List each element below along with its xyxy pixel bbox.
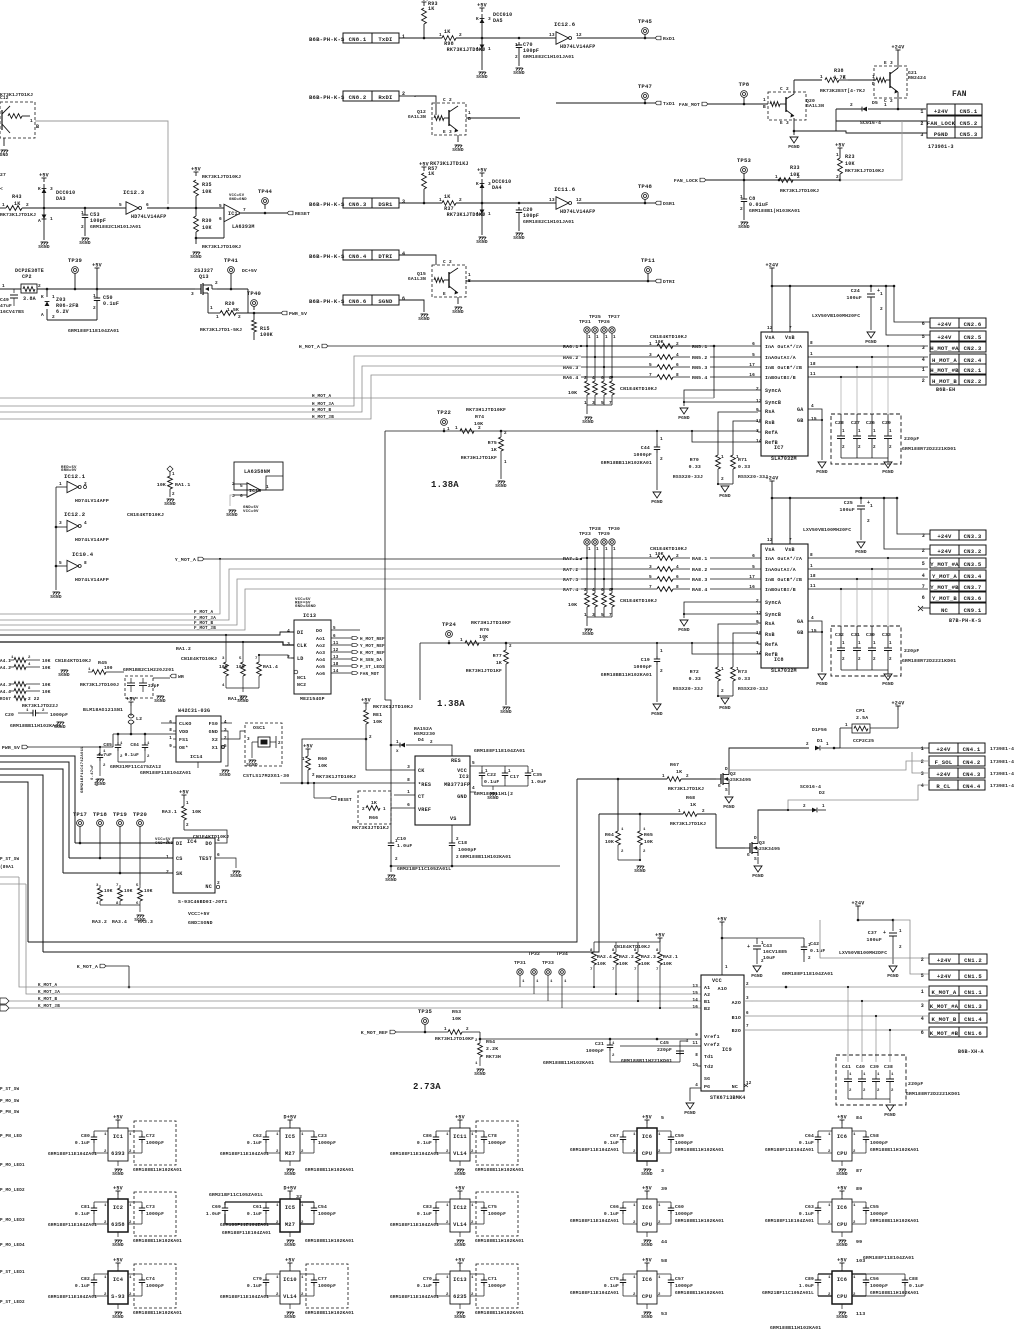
svg-text:D1: D1 — [817, 738, 823, 744]
ground SGND at C20 — [57, 721, 64, 723]
resistor R72 0.33 — [716, 667, 721, 681]
svg-text:1: 1 — [471, 1204, 474, 1208]
svg-text:6: 6 — [676, 574, 679, 580]
wire K_MOT_A — [19, 877, 701, 987]
ground SGND under R75 — [498, 480, 505, 482]
svg-text:C23: C23 — [318, 1133, 327, 1139]
wires IC9 outputs to CN1 — [744, 986, 929, 988]
svg-text:2: 2 — [877, 1089, 880, 1093]
svg-text:DSR1: DSR1 — [378, 201, 393, 208]
svg-text:Ao6: Ao6 — [316, 671, 325, 677]
ground SGND IC5 row1 — [289, 1161, 291, 1166]
test point TP17 — [77, 820, 84, 827]
svg-text:1: 1 — [301, 1276, 304, 1280]
svg-text:100: 100 — [104, 665, 113, 671]
svg-text:2 22: 2 22 — [28, 696, 40, 702]
svg-text:2: 2 — [459, 197, 462, 203]
resistor RA3.3 10K vertical — [138, 888, 143, 901]
svg-text:1: 1 — [266, 484, 269, 490]
svg-text:1: 1 — [588, 547, 591, 552]
wire CLKO out — [161, 722, 176, 724]
svg-text:GRM21BF11C105ZA01L: GRM21BF11C105ZA01L — [397, 866, 451, 872]
svg-text:4: 4 — [811, 615, 814, 621]
net DSR1 out — [645, 202, 655, 204]
svg-text:GA1L3N: GA1L3N — [408, 276, 426, 282]
svg-text:RK73K1JTD1KJ: RK73K1JTD1KJ — [670, 821, 706, 827]
svg-text:1000pF: 1000pF — [870, 1211, 888, 1217]
svg-text:C37: C37 — [868, 930, 877, 936]
svg-text:2: 2 — [276, 1221, 279, 1225]
svg-text:LA6393M: LA6393M — [232, 224, 255, 230]
svg-text:1: 1 — [596, 335, 599, 340]
svg-text:4: 4 — [676, 352, 679, 358]
capacitor C8 0.01uF — [743, 180, 745, 196]
svg-text:1: 1 — [660, 436, 663, 442]
svg-text:1: 1 — [383, 807, 386, 812]
ground SGND under IC14 — [197, 762, 199, 768]
connector CN1.2 — [929, 954, 987, 964]
svg-text:2: 2 — [104, 1293, 107, 1297]
svg-text:+24V: +24V — [937, 973, 952, 980]
svg-text:TP17: TP17 — [73, 811, 87, 818]
wire to CN5.1 — [898, 108, 926, 110]
svg-text:FS1: FS1 — [179, 737, 188, 743]
svg-text:RA6.1: RA6.1 — [563, 344, 578, 350]
svg-text:SGND: SGND — [164, 501, 176, 507]
svg-text:R77: R77 — [493, 653, 502, 659]
svg-text:C17: C17 — [510, 774, 519, 780]
svg-text:P_ST_SW: P_ST_SW — [0, 1087, 20, 1092]
svg-text:GRM188F11E104ZA01: GRM188F11E104ZA01 — [390, 1151, 439, 1157]
svg-text:10K: 10K — [644, 839, 653, 845]
svg-text:0.33: 0.33 — [689, 464, 701, 470]
svg-text:2: 2 — [658, 1293, 661, 1297]
wire F_SOL — [729, 761, 929, 770]
svg-text:0.1uF: 0.1uF — [484, 779, 499, 785]
svg-text:10uF: 10uF — [763, 955, 775, 961]
wire to TP40 — [236, 312, 254, 314]
svg-text:2: 2 — [276, 1293, 279, 1297]
net PWR_5V out — [281, 311, 287, 315]
svg-text:IC13: IC13 — [303, 613, 316, 619]
svg-text:C: C — [443, 259, 446, 265]
svg-text:E: E — [884, 60, 887, 66]
svg-text:SGND: SGND — [582, 419, 594, 425]
svg-text:TP33: TP33 — [542, 960, 554, 966]
svg-text:1: 1 — [633, 1276, 636, 1280]
svg-text:11: 11 — [692, 1041, 698, 1046]
svg-text:RK73K1JTD1KJ: RK73K1JTD1KJ — [447, 212, 486, 218]
svg-text:3: 3 — [96, 884, 99, 888]
svg-text:RA8.2: RA8.2 — [692, 567, 707, 573]
svg-text:GRM188B11H221KD01: GRM188B11H221KD01 — [621, 1058, 672, 1064]
net H_MOT_REF stub — [331, 637, 352, 639]
svg-text:K: K — [41, 294, 44, 300]
svg-text:RefA: RefA — [765, 642, 779, 648]
svg-text:2: 2 — [449, 259, 452, 265]
resistor R15 100K — [253, 313, 255, 320]
svg-text:3: 3 — [222, 657, 225, 661]
svg-text:CCP2C25: CCP2C25 — [853, 738, 874, 744]
capacitor C75 0.1uF — [622, 1274, 624, 1277]
resistor RA2.2 10K — [615, 942, 617, 952]
svg-text:PGND: PGND — [751, 973, 763, 979]
svg-text:4: 4 — [922, 573, 925, 579]
svg-text:10K: 10K — [236, 664, 245, 670]
svg-text:RK73K1JTD10KJ: RK73K1JTD10KJ — [202, 174, 241, 180]
svg-text:3: 3 — [921, 771, 924, 777]
ground SGND under inverters — [53, 591, 60, 593]
svg-text:1: 1 — [439, 197, 442, 203]
capacitor group C28-C29 dashed — [831, 414, 901, 464]
test point TP40 — [251, 300, 258, 307]
svg-text:SGND: SGND — [474, 1071, 486, 1077]
wire GA GB to PGND — [808, 409, 822, 460]
wire unit rail IC6 row1 — [623, 1130, 637, 1132]
svg-text:CN1.4: CN1.4 — [964, 1016, 982, 1023]
wire TxD1 — [556, 102, 645, 104]
connector CN3.5 — [930, 558, 986, 568]
svg-text:C39: C39 — [870, 1064, 879, 1070]
svg-text:2SK3495: 2SK3495 — [759, 846, 780, 852]
svg-text:RK73K1JTD10KJ: RK73K1JTD10KJ — [202, 244, 241, 250]
svg-text:1: 1 — [662, 774, 665, 779]
svg-text:14: 14 — [756, 438, 762, 444]
connector CN2.2 — [930, 375, 986, 385]
svg-text:RK73K1JTD1KJ: RK73K1JTD1KJ — [430, 161, 469, 167]
svg-text:1: 1 — [810, 563, 813, 569]
wire K_MOT_#A — [26, 884, 701, 994]
svg-text:1: 1 — [504, 460, 507, 465]
svg-text:PGND: PGND — [788, 144, 800, 150]
svg-text:InBOutB#/B: InBOutB#/B — [765, 587, 796, 593]
svg-text:RK73K1JTD1KJ: RK73K1JTD1KJ — [668, 786, 704, 792]
svg-text:8: 8 — [116, 902, 119, 906]
svg-text:RA8.4: RA8.4 — [692, 587, 707, 593]
svg-text:13: 13 — [692, 984, 698, 989]
wire bundle-4 — [0, 775, 43, 952]
svg-text:2: 2 — [172, 492, 175, 497]
svg-text:CN1E4KTD10KJ: CN1E4KTD10KJ — [614, 944, 650, 950]
svg-text:B6B-PH-K-S: B6B-PH-K-S — [309, 36, 345, 43]
svg-text:15: 15 — [811, 416, 817, 422]
svg-text:2: 2 — [224, 736, 227, 741]
svg-text:3: 3 — [922, 345, 925, 351]
ground SGND IC4 row3 — [117, 1304, 119, 1309]
svg-text:1: 1 — [147, 742, 150, 746]
ground SGND at C8 — [741, 221, 748, 223]
svg-text:1: 1 — [488, 46, 491, 52]
wire unit rail IC6 row2 — [818, 1201, 832, 1203]
svg-text:1: 1 — [584, 612, 587, 618]
svg-text:F_SOL: F_SOL — [935, 759, 953, 766]
svg-text:1: 1 — [276, 1133, 279, 1137]
svg-text:16CV47BS: 16CV47BS — [0, 309, 24, 315]
svg-text:7: 7 — [243, 207, 246, 213]
svg-text:GND: GND — [457, 794, 467, 800]
svg-text:2: 2 — [478, 425, 481, 431]
svg-text:1000pF: 1000pF — [870, 1140, 888, 1146]
svg-text:RA2.2: RA2.2 — [619, 954, 634, 960]
svg-text:C77: C77 — [318, 1276, 327, 1282]
svg-text:4: 4 — [592, 375, 595, 381]
svg-text:2: 2 — [921, 957, 924, 963]
svg-text:CN1E4KTD10KJ: CN1E4KTD10KJ — [650, 546, 687, 552]
svg-text:PG: PG — [704, 1084, 710, 1090]
svg-text:1K: 1K — [444, 29, 451, 35]
svg-text:GRM188R72D2221KD01: GRM188R72D2221KD01 — [902, 446, 956, 452]
svg-text:C56: C56 — [870, 1276, 879, 1282]
wire Q3 drain up — [758, 810, 788, 840]
svg-text:1: 1 — [588, 335, 591, 340]
svg-text:2: 2 — [471, 1221, 474, 1225]
svg-text:1: 1 — [612, 1042, 615, 1046]
svg-text:10K: 10K — [157, 482, 166, 488]
resistor RA2.1 10K — [659, 942, 661, 952]
svg-text:R53: R53 — [452, 1009, 461, 1015]
svg-text:TP39: TP39 — [68, 257, 83, 264]
svg-text:RsB: RsB — [765, 420, 775, 426]
svg-text:4: 4 — [28, 663, 31, 667]
svg-text:RK73H1JTD10KF: RK73H1JTD10KF — [435, 1036, 474, 1042]
svg-text:GRM1882C1H101JA01: GRM1882C1H101JA01 — [90, 224, 141, 230]
svg-text:TP29: TP29 — [598, 531, 610, 537]
svg-text:H_MOT_B: H_MOT_B — [932, 378, 957, 385]
svg-text:RK73H1JTD1KF: RK73H1JTD1KF — [466, 668, 502, 674]
svg-text:2: 2 — [446, 1150, 449, 1154]
svg-text:A4.2: A4.2 — [0, 666, 11, 671]
svg-text:2: 2 — [853, 1221, 856, 1225]
ground SGND IC13 row3 — [459, 1304, 461, 1309]
capacitor C25 100uF — [860, 498, 862, 504]
svg-text:C89: C89 — [805, 1276, 814, 1282]
wire to comparator — [196, 207, 224, 209]
svg-text:CN8.3: CN8.3 — [349, 201, 367, 208]
svg-text:RefA: RefA — [765, 430, 779, 436]
svg-text:R75: R75 — [488, 440, 497, 446]
svg-text:2: 2 — [806, 742, 809, 747]
ground SGND at Q15 — [457, 297, 459, 304]
svg-text:C59: C59 — [675, 1133, 684, 1139]
capacitor C35 1.0uF — [527, 766, 529, 770]
wire data LD bus — [259, 655, 294, 658]
ground SGND at Q12 — [457, 135, 459, 142]
svg-text:WR: WR — [178, 674, 184, 680]
wire long loop A — [28, 779, 577, 942]
svg-text:100uF: 100uF — [867, 937, 882, 943]
svg-text:2: 2 — [633, 1221, 636, 1225]
svg-text:CN1E4KTD10KJ: CN1E4KTD10KJ — [193, 834, 229, 840]
svg-text:1: 1 — [475, 1062, 478, 1066]
svg-text:2: 2 — [515, 54, 518, 60]
svg-text:SGND: SGND — [454, 1171, 466, 1177]
wire RefB — [692, 431, 758, 442]
svg-text:C61: C61 — [253, 1204, 262, 1210]
svg-text:TP21: TP21 — [579, 319, 591, 325]
svg-text:1: 1 — [740, 194, 743, 200]
capacitor C62 0.1uF — [265, 1131, 267, 1134]
svg-text:VREF: VREF — [418, 807, 431, 813]
wire K_MOT_#B — [9, 1007, 701, 1009]
svg-text:RK73H1JTD1KF: RK73H1JTD1KF — [461, 455, 497, 461]
svg-text:P_MO_LED4: P_MO_LED4 — [0, 1243, 25, 1248]
svg-text:R64: R64 — [605, 832, 614, 838]
connector CN3.2 — [930, 545, 986, 555]
svg-text:1: 1 — [921, 989, 924, 995]
svg-text:173981-4: 173981-4 — [990, 771, 1014, 777]
ground PGND at Q20 — [790, 137, 798, 143]
svg-text:D: D — [754, 835, 757, 841]
svg-text:B6B-PH-K-S: B6B-PH-K-S — [309, 201, 345, 208]
svg-text:2: 2 — [446, 1221, 449, 1225]
svg-text:2: 2 — [761, 959, 764, 964]
svg-text:K73K1JTD1KJ: K73K1JTD1KJ — [0, 92, 33, 98]
svg-text:FAN_MOT: FAN_MOT — [360, 672, 380, 677]
svg-text:6: 6 — [240, 493, 243, 499]
svg-text:L2: L2 — [136, 716, 142, 722]
svg-text:22pF: 22pF — [148, 683, 160, 689]
svg-text:Td1: Td1 — [704, 1054, 713, 1060]
svg-text:RN5.3: RN5.3 — [692, 365, 707, 371]
svg-text:DO: DO — [316, 628, 322, 634]
svg-text:IC10.4: IC10.4 — [72, 551, 94, 558]
svg-text:C83: C83 — [423, 1204, 432, 1210]
svg-text:1: 1 — [407, 789, 410, 795]
wire Q13 gate — [207, 305, 209, 313]
svg-text:PGND: PGND — [684, 1110, 696, 1116]
svg-text:C42: C42 — [810, 941, 819, 947]
wire TEST to SGND — [215, 858, 236, 868]
svg-text:18: 18 — [810, 361, 816, 367]
svg-text:IC7: IC7 — [774, 445, 784, 451]
svg-text:GRM188B11H102KA01: GRM188B11H102KA01 — [460, 854, 511, 860]
net RESET stub — [314, 797, 330, 799]
left edge stub K_MOT_B — [0, 998, 9, 1004]
svg-text:3: 3 — [649, 564, 652, 570]
svg-text:C10: C10 — [397, 836, 406, 842]
svg-text:7: 7 — [116, 884, 119, 888]
svg-text:220pF: 220pF — [904, 648, 919, 654]
svg-text:SGND: SGND — [513, 70, 525, 76]
svg-text:SC016-4: SC016-4 — [800, 784, 821, 790]
svg-text:P_PN_LED: P_PN_LED — [0, 1134, 22, 1139]
svg-text:C26: C26 — [866, 420, 875, 426]
svg-text:C62: C62 — [253, 1133, 262, 1139]
svg-text:IC12.6: IC12.6 — [554, 21, 576, 28]
op-amp IC15 LA6358NM — [234, 462, 283, 490]
svg-text:2: 2 — [584, 587, 587, 593]
svg-text:0.1uF: 0.1uF — [417, 1283, 432, 1289]
svg-text:SGND: SGND — [836, 1171, 848, 1177]
svg-text:P_MO_LED2: P_MO_LED2 — [0, 1188, 25, 1193]
svg-text:2: 2 — [836, 174, 839, 180]
connector CN4.2 — [929, 756, 985, 766]
svg-text:TP32: TP32 — [528, 951, 540, 957]
test point TP19 — [117, 820, 124, 827]
svg-text:1K: 1K — [444, 194, 451, 200]
svg-text:CP2: CP2 — [22, 274, 32, 280]
svg-text:Y_MOT_A: Y_MOT_A — [175, 557, 196, 563]
test point TP18 — [97, 820, 104, 827]
svg-text:3: 3 — [746, 996, 749, 1001]
svg-text:1: 1 — [508, 769, 511, 774]
svg-text:NC: NC — [941, 607, 949, 614]
svg-text:1000pF: 1000pF — [675, 1140, 693, 1146]
svg-text:DTRI: DTRI — [663, 279, 675, 285]
svg-text:IC3: IC3 — [459, 774, 469, 780]
svg-text:6: 6 — [219, 216, 222, 222]
svg-text:InB OutB*/#B: InB OutB*/#B — [765, 577, 802, 583]
test point TP48 — [642, 193, 649, 200]
svg-text:220pF: 220pF — [657, 1047, 672, 1053]
svg-text:C: C — [443, 97, 446, 103]
svg-text:CN8.1: CN8.1 — [349, 36, 367, 43]
svg-text:4: 4 — [922, 357, 925, 363]
svg-text:FAN_LOCK: FAN_LOCK — [674, 178, 698, 184]
svg-text:B: B — [763, 104, 766, 110]
svg-text:GRM188B11H102KA01: GRM188B11H102KA01 — [770, 1325, 821, 1330]
wire CP1 node down — [839, 728, 841, 748]
svg-text:GRM188F11E104ZA01: GRM188F11E104ZA01 — [390, 1222, 439, 1228]
svg-text:CT: CT — [418, 794, 425, 800]
svg-text:A: A — [476, 46, 479, 52]
svg-text:A: A — [476, 211, 479, 217]
svg-text:47uF: 47uF — [0, 303, 12, 309]
wires motor outputs — [808, 557, 928, 559]
svg-text:6.2V: 6.2V — [56, 309, 70, 315]
svg-text:5: 5 — [921, 973, 924, 979]
svg-text:SGND: SGND — [134, 917, 146, 923]
svg-text:3: 3 — [232, 493, 235, 499]
svg-text:Ao5: Ao5 — [316, 664, 325, 670]
svg-text:2: 2 — [475, 1039, 478, 1043]
svg-text:VCC=+5V: VCC=+5V — [188, 911, 210, 917]
svg-text:GB: GB — [797, 418, 803, 424]
svg-text:CPU: CPU — [642, 1151, 652, 1157]
svg-text:C35: C35 — [533, 772, 542, 778]
svg-text:SyncB: SyncB — [765, 400, 781, 406]
capacitor C88 0.1uF extra — [904, 1274, 906, 1277]
ground SGND under RA6 — [586, 405, 588, 414]
svg-text:1: 1 — [899, 929, 902, 934]
svg-text:2: 2 — [166, 869, 169, 875]
svg-text:2: 2 — [850, 102, 853, 108]
svg-text:CN3.2: CN3.2 — [964, 548, 982, 555]
wire Vref feed — [596, 1038, 701, 1040]
capacitor C73 1000pF — [134, 1192, 176, 1236]
svg-text:RK73K2EST[4-7KJ: RK73K2EST[4-7KJ — [820, 88, 865, 94]
wire +24V to CN3.3 — [897, 498, 930, 534]
ground SGND under RA7 — [586, 617, 588, 626]
svg-text:1K: 1K — [496, 660, 502, 666]
capacitor C66 0.1uF — [622, 1202, 624, 1205]
svg-text:D5: D5 — [872, 100, 878, 106]
svg-text:RxDI: RxDI — [378, 94, 392, 101]
svg-text:10K: 10K — [568, 602, 577, 608]
svg-text:C: C — [780, 86, 783, 92]
wire RefA — [691, 642, 693, 644]
svg-text:1: 1 — [633, 1133, 636, 1137]
capacitor C89 0.1uF — [817, 1274, 819, 1277]
svg-text:+24V: +24V — [936, 771, 951, 778]
svg-text:8: 8 — [590, 949, 593, 953]
resistor R70 0.33 — [716, 455, 721, 469]
svg-text:CN1E4KTD10KJ: CN1E4KTD10KJ — [127, 512, 164, 518]
svg-text:2.73A: 2.73A — [413, 1082, 441, 1092]
wire clock vcc — [113, 733, 176, 735]
capacitor C20 100pF — [518, 207, 520, 210]
svg-text:Td2: Td2 — [704, 1064, 713, 1070]
